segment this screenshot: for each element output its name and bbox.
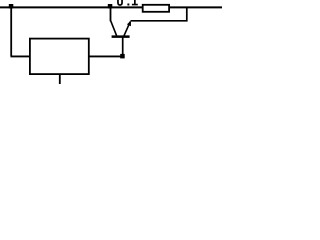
value label 0.1 (top-clipped digit 1) <box>132 0 138 5</box>
wire vertical from node A down to left wire <box>10 7 12 56</box>
wire left lead into component box <box>11 55 31 57</box>
wire emitter to right vertical <box>131 20 188 22</box>
wire right vertical tap after resistor <box>186 8 188 22</box>
transistor Q1 base bar <box>112 35 130 38</box>
value label 0.1 (decimal point) <box>127 4 129 6</box>
node A junction dot <box>9 4 14 9</box>
value label 0.1 (top-clipped digit 0) <box>118 0 122 5</box>
node C base terminal dot <box>120 54 125 59</box>
wire base lead of Q1 <box>122 37 124 56</box>
transistor Q1 emitter arrowhead <box>127 21 131 27</box>
wire bottom lead from box to edge <box>59 74 61 84</box>
transistor Q1 emitter diagonal <box>124 22 130 36</box>
component box U1 <box>30 39 89 75</box>
resistor R1 body <box>143 5 169 12</box>
wire right lead from box to base node <box>89 55 122 57</box>
node B junction dot <box>108 4 113 9</box>
wire top supply rail <box>0 6 222 8</box>
transistor Q1 collector diagonal <box>111 21 117 36</box>
wire collector lead vertical of Q1 <box>110 7 112 21</box>
